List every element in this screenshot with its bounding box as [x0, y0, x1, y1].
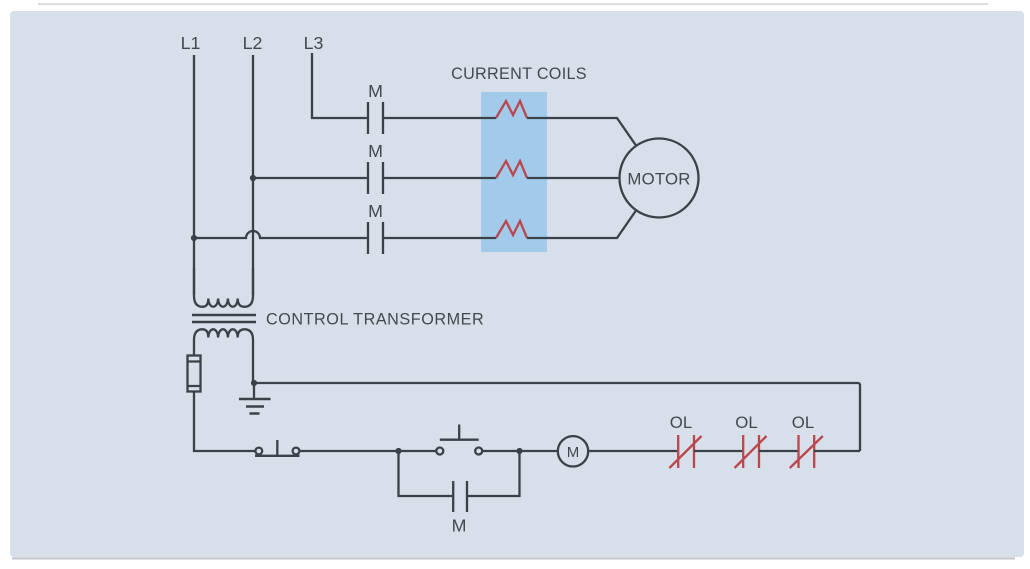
start pushbutton stem	[458, 425, 460, 440]
junction dot node B	[516, 448, 522, 454]
transformer secondary winding	[194, 329, 253, 383]
wire rung1 L3 to contact M1	[312, 117, 368, 118]
wire rung2 L2 to contact M2	[253, 177, 368, 179]
wire rung2 contact to coil	[383, 177, 496, 179]
svg-text:OL: OL	[792, 413, 814, 432]
contact M3 plates	[368, 222, 383, 254]
current coils highlight box	[481, 92, 547, 252]
current coil heater 3	[496, 221, 527, 238]
junction dot ground node	[251, 380, 257, 386]
svg-text:L1: L1	[181, 33, 201, 53]
svg-text:M: M	[368, 141, 383, 161]
bottom hairline	[12, 557, 1015, 559]
svg-text:OL: OL	[735, 413, 757, 432]
current coil heater 2	[496, 161, 527, 178]
line L3 vertical	[311, 53, 313, 118]
wire node A to start button	[399, 450, 437, 452]
wire rung3 L1 to contact M3 with hop over L2	[194, 231, 368, 238]
overload contact OL2	[735, 435, 767, 468]
start pushbutton terminal circles	[436, 448, 443, 455]
svg-text:M: M	[368, 81, 383, 101]
transformer primary winding	[194, 268, 253, 307]
svg-text:M: M	[567, 444, 580, 461]
svg-text:M: M	[368, 201, 383, 221]
wire rung1 coil to motor	[527, 118, 636, 146]
svg-text:MOTOR: MOTOR	[627, 169, 690, 188]
wire rung3 coil to motor	[527, 211, 636, 239]
top hairline	[38, 3, 988, 4]
coil M circle	[558, 436, 588, 466]
junction dot L1 rung3	[191, 235, 197, 241]
wire rung2 coil to motor	[527, 177, 620, 179]
ground bar 1	[239, 398, 271, 401]
wire node to right bus	[254, 383, 860, 451]
wire coil to OL1	[588, 450, 678, 452]
overload contact OL3	[790, 435, 823, 468]
stop pushbutton bridge bar	[255, 455, 300, 457]
svg-text:L2: L2	[243, 33, 263, 53]
contact M2 plates	[368, 162, 383, 194]
wire OL1 to OL2	[694, 450, 743, 452]
current coil heater 1	[496, 101, 527, 118]
line L2 vertical	[252, 55, 254, 295]
overload contact OL1	[669, 435, 701, 468]
branch node B down	[467, 451, 520, 496]
wire secondary to ground node	[253, 381, 255, 398]
svg-text:CONTROL TRANSFORMER: CONTROL TRANSFORMER	[266, 311, 484, 329]
svg-text:OL: OL	[670, 413, 692, 432]
svg-text:L3: L3	[304, 33, 324, 53]
wire node B to coil M	[520, 450, 558, 452]
contact M1 plates	[368, 102, 383, 134]
branch node A down	[399, 451, 454, 496]
wire OL2 to OL3	[759, 450, 799, 452]
svg-text:M: M	[452, 516, 467, 536]
wire stop to node A	[299, 450, 398, 452]
junction dot node A	[395, 448, 401, 454]
line L1 vertical	[193, 55, 195, 295]
wire rung3 contact to coil	[383, 237, 496, 239]
fuse body	[188, 356, 201, 392]
aux contact M plates	[453, 481, 467, 512]
fuse end lines	[188, 362, 201, 387]
svg-text:CURRENT COILS: CURRENT COILS	[451, 65, 587, 83]
stop pushbutton terminal circles	[255, 448, 262, 455]
motor circle	[620, 139, 699, 218]
wire rung1 contact to coil	[383, 117, 496, 119]
start pushbutton bar	[440, 439, 479, 441]
ground bar 2	[246, 405, 264, 408]
junction dot L2 rung2	[250, 175, 256, 181]
wire OL3 to right bus	[814, 450, 860, 452]
wire start to node B	[482, 450, 519, 452]
ground bar 3	[250, 412, 260, 415]
stop pushbutton stem	[276, 440, 278, 456]
transformer core lines	[192, 315, 256, 322]
wire fuse to bottom rung	[194, 392, 255, 452]
